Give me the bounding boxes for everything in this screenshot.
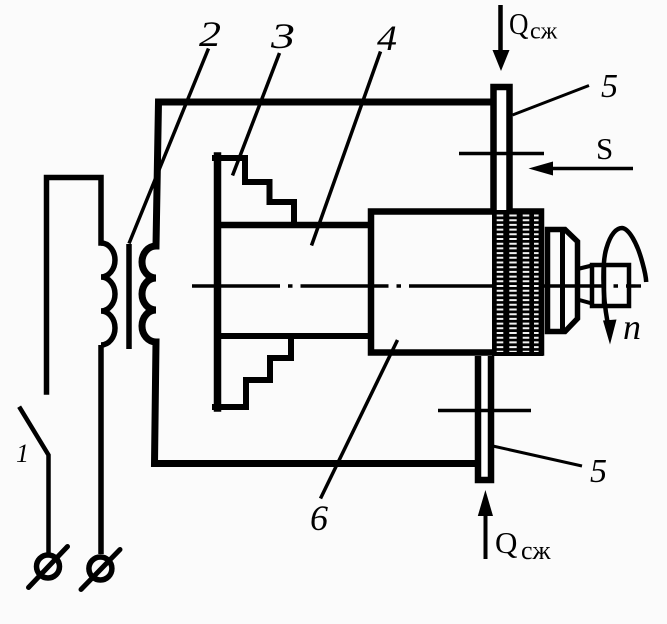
svg-text:Q: Q (509, 6, 529, 41)
svg-text:S: S (596, 131, 613, 166)
svg-text:сж: сж (530, 19, 558, 45)
svg-text:3: 3 (270, 16, 295, 56)
svg-text:5: 5 (590, 453, 607, 490)
svg-text:1: 1 (16, 439, 29, 468)
svg-text:Q: Q (495, 525, 517, 560)
svg-text:6: 6 (310, 498, 328, 538)
svg-text:сж: сж (521, 536, 552, 565)
svg-text:5: 5 (601, 68, 618, 105)
svg-text:2: 2 (199, 14, 221, 54)
svg-text:n: n (623, 307, 641, 347)
svg-text:4: 4 (377, 18, 397, 58)
